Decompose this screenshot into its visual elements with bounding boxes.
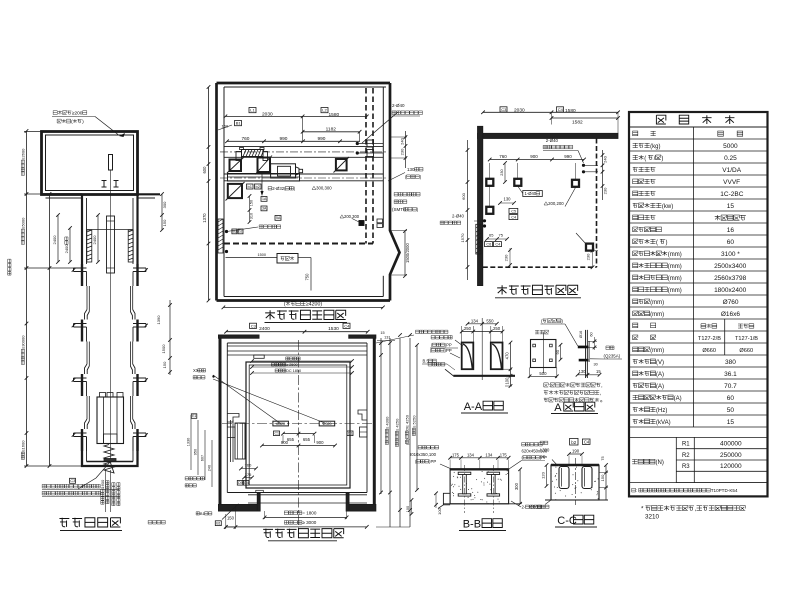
svg-text:550: 550: [486, 319, 494, 324]
svg-text:310: 310: [250, 213, 254, 219]
svg-text:1580: 1580: [329, 112, 340, 118]
svg-text:900: 900: [316, 440, 324, 445]
svg-text:230: 230: [504, 254, 509, 261]
svg-text:760: 760: [499, 154, 507, 159]
svg-text:Ø660: Ø660: [739, 348, 753, 354]
pit leader and notes: [78, 462, 110, 489]
svg-text:): ): [666, 240, 668, 246]
svg-text:230: 230: [400, 148, 405, 155]
svg-text:600: 600: [461, 192, 466, 199]
B-B top dims: [450, 457, 509, 459]
svg-text:15: 15: [727, 419, 735, 426]
svg-text:C4: C4: [511, 216, 516, 220]
svg-text:75: 75: [499, 233, 504, 238]
door width dim 1800: [265, 516, 347, 518]
right dims 240 230: [602, 150, 604, 200]
svg-text:≥1600: ≥1600: [21, 440, 26, 452]
svg-text:L1: L1: [250, 108, 255, 113]
svg-text:1182: 1182: [326, 127, 337, 133]
left rail bracket: [227, 414, 239, 423]
dim 150 bottom left: [226, 526, 236, 528]
pulley dims 655 655: [283, 433, 315, 435]
bottom left leader B1: [222, 504, 239, 520]
table gap band: [629, 436, 768, 438]
notch dim 1500 2000: [404, 231, 406, 276]
plan outer left wall: [215, 83, 218, 301]
A-detail steel plate label: [606, 346, 610, 350]
A-A right dims 470 100: [510, 343, 512, 387]
guide rail long rect: [107, 216, 115, 273]
svg-text:36.1: 36.1: [724, 371, 737, 378]
svg-text:C4: C4: [344, 323, 350, 328]
svg-text:I,300: I,300: [540, 448, 550, 453]
section-view left dim labels: [21, 148, 26, 175]
C-C stipple: [572, 484, 573, 485]
svg-text:1500/2000: 1500/2000: [405, 243, 410, 263]
svg-text:C4: C4: [495, 243, 500, 247]
svg-text:380: 380: [725, 359, 736, 366]
machine room box inner wall: [46, 135, 134, 191]
svg-text:(Q235A): (Q235A): [604, 354, 621, 359]
right top leader texts: [416, 330, 420, 333]
svg-text:(mm): (mm): [650, 348, 664, 354]
svg-text:230: 230: [603, 187, 608, 194]
svg-text:0.25: 0.25: [724, 155, 737, 162]
svg-text:VVVF: VVVF: [723, 179, 740, 186]
svg-text:2400: 2400: [259, 326, 270, 332]
hoist machine in machine room: [109, 155, 113, 171]
C-C channels: [559, 467, 569, 489]
shaft walls top solid segment: [81, 194, 83, 264]
B-B right dim 300: [519, 469, 521, 504]
A-A right beam rect: [491, 343, 503, 370]
B-B top left labels: [418, 446, 422, 449]
svg-text:3A: 3A: [262, 207, 267, 211]
table title: [656, 115, 665, 124]
svg-text:300: 300: [162, 201, 167, 208]
counterweight assembly left wall: [230, 420, 232, 462]
center crosshair dash-dot: [298, 340, 300, 530]
A-A extension lines: [461, 326, 463, 343]
svg-text:200,300: 200,300: [344, 214, 360, 219]
svg-text:R2: R2: [682, 453, 690, 459]
title 井道剖面图: [59, 518, 69, 527]
svg-text:230: 230: [586, 253, 591, 260]
rope hole square S4: [228, 184, 242, 198]
svg-text:≤30000: ≤30000: [21, 335, 26, 349]
svg-text:(kg): (kg): [650, 144, 660, 150]
dim 100 below right stack: [406, 506, 410, 512]
plan right wall with notch: [390, 83, 400, 301]
hole H5: [586, 244, 593, 251]
C-C top left labels: [540, 441, 544, 444]
plan dashed boundary: [365, 88, 367, 244]
C-C dim 190: [569, 453, 582, 455]
svg-text:DE 4250: DE 4250: [405, 414, 410, 430]
guide rail hatched bars: [87, 230, 92, 262]
svg-text:65: 65: [489, 233, 494, 238]
svg-text:240: 240: [603, 155, 608, 162]
svg-text:150: 150: [162, 219, 167, 226]
svg-text:(N): (N): [656, 460, 664, 466]
left outside note: [185, 477, 188, 480]
left outside dim columns shaft plan: [190, 415, 192, 470]
svg-text:(V): (V): [656, 360, 664, 366]
anchor dots and wall boxes: [356, 142, 359, 145]
svg-text:655: 655: [303, 437, 311, 442]
svg-text:)PP: )PP: [445, 343, 452, 348]
svg-text:990: 990: [279, 136, 287, 142]
svg-text:b2: b2: [571, 440, 577, 445]
dim 1182: [303, 131, 360, 133]
C-C bottom left leader: [545, 500, 551, 505]
A-detail dim 500: [530, 375, 557, 377]
svg-text:175: 175: [245, 472, 252, 477]
svg-text:607: 607: [201, 455, 205, 461]
svg-text:(mm): (mm): [668, 264, 682, 270]
hole H1: [486, 179, 493, 186]
svg-text:175: 175: [500, 452, 508, 457]
svg-text:(A): (A): [656, 384, 664, 390]
svg-text:3210: 3210: [645, 514, 660, 521]
buffer spring: [104, 445, 114, 474]
pit vertical dim texts: [105, 470, 107, 512]
svg-text:130: 130: [579, 369, 587, 374]
hole H4: [486, 207, 493, 214]
svg-text:A: A: [554, 402, 562, 414]
svg-text:B1: B1: [216, 522, 220, 526]
svg-text:≥ 3000: ≥ 3000: [302, 520, 316, 525]
svg-text:(mm): (mm): [650, 312, 664, 318]
left outside dim column: [208, 87, 210, 301]
title 机房平面布置图: [265, 310, 275, 319]
svg-text:Ø16: Ø16: [579, 331, 583, 338]
svg-text:2-Ø32(: 2-Ø32(: [272, 186, 286, 191]
A-detail plate: [531, 340, 556, 368]
right outside dim stack: [380, 338, 382, 494]
svg-text:D1: D1: [348, 432, 353, 436]
svg-text:C3: C3: [501, 107, 507, 112]
buffer base: [104, 459, 116, 462]
svg-text:2500x3400: 2500x3400: [714, 263, 747, 270]
svg-text:240: 240: [208, 465, 212, 471]
section-view secondary dim line: [49, 194, 51, 466]
svg-text:1370: 1370: [202, 213, 207, 223]
svg-text:C3: C3: [70, 478, 76, 483]
left wall cable slot: [218, 219, 223, 253]
ref boxes C5 C4: [509, 208, 518, 213]
leader to box top: [95, 117, 118, 135]
svg-text:131: 131: [384, 336, 390, 340]
svg-text:150: 150: [600, 474, 605, 481]
svg-text:(mm): (mm): [650, 300, 664, 306]
svg-text:≥ 2500: ≥ 2500: [286, 363, 298, 367]
svg-text:5A: 5A: [276, 216, 281, 220]
svg-text:120: 120: [541, 471, 546, 478]
svg-text:134: 134: [467, 452, 475, 457]
svg-text:b1: b1: [248, 184, 253, 189]
svg-text:≥5000: ≥5000: [21, 217, 26, 229]
svg-text:,: ,: [600, 391, 601, 397]
svg-text:Ø660: Ø660: [702, 348, 716, 354]
svg-text:D4: D4: [244, 481, 249, 485]
A-A left beam rect: [462, 343, 474, 370]
svg-text:15: 15: [380, 331, 384, 335]
svg-text:1530: 1530: [328, 326, 339, 332]
svg-text:1600: 1600: [100, 479, 105, 489]
svg-text:2400: 2400: [92, 235, 97, 245]
C-C centerline: [575, 458, 577, 505]
svg-text:T127-2/B: T127-2/B: [698, 336, 721, 342]
traction machine sheave block: [242, 150, 264, 157]
top dim line 2030 1580: [225, 115, 366, 117]
hole labels under machine: [268, 187, 272, 190]
svg-text:b2: b2: [239, 230, 243, 234]
shaft plan top dim line: [226, 331, 368, 333]
top label machine room slab: [53, 111, 57, 115]
svg-text:≥2600: ≥2600: [21, 148, 26, 160]
wall slot hatched: [476, 224, 481, 254]
A-detail dim 90: [560, 345, 562, 360]
svg-text:b2: b2: [256, 184, 261, 189]
pulley boxes under car: [273, 421, 289, 426]
A-A leader texts: [431, 335, 435, 339]
svg-text:2-Ø40: 2-Ø40: [392, 103, 405, 108]
svg-text:(Hz): (Hz): [656, 408, 667, 414]
svg-text:1A: 1A: [262, 197, 267, 201]
shaft plan back wall lines: [227, 342, 367, 344]
pit walls and floor: [82, 437, 138, 467]
svg-text:(mm): (mm): [668, 252, 682, 258]
svg-text:2560x3798: 2560x3798: [714, 275, 747, 282]
A-detail centerline: [542, 333, 544, 374]
B-B top right labels: [522, 443, 526, 446]
motor body: [271, 164, 296, 178]
svg-text:500: 500: [539, 371, 547, 376]
svg-text:2030: 2030: [262, 111, 273, 117]
svg-text:100: 100: [505, 377, 510, 385]
svg-text:300: 300: [514, 482, 519, 490]
svg-text:134: 134: [471, 319, 479, 324]
hole H5 leader and dim: [576, 233, 586, 244]
wall boxes bottom right: [377, 219, 383, 223]
svg-text:200,200: 200,200: [548, 201, 564, 206]
rope hole square S1: [230, 160, 242, 172]
svg-text:B3: B3: [232, 230, 236, 234]
svg-text:R1: R1: [682, 441, 690, 447]
svg-text:(mm): (mm): [668, 276, 682, 282]
rope hole square S2: [258, 158, 271, 173]
bottom dim width: [223, 306, 383, 308]
floor door sills, slabs and door panels: [74, 267, 87, 269]
label 1-040 hole: [523, 191, 543, 197]
black anchor square: [359, 221, 364, 226]
right outside dims 240 230: [405, 131, 407, 168]
svg-text:≥ 5250: ≥ 5250: [412, 415, 417, 428]
svg-text:1570: 1570: [460, 233, 465, 243]
svg-text:(SMTC: (SMTC: [392, 207, 407, 212]
svg-text::: :: [636, 488, 637, 493]
svg-text:Ø16x6: Ø16x6: [721, 311, 741, 318]
B-B stipple dots: [469, 474, 470, 475]
A-detail notes: [544, 383, 548, 387]
svg-text:C1: C1: [275, 432, 280, 436]
hole connector lines: [489, 163, 491, 179]
B-B I-beams: [458, 472, 471, 474]
svg-text:150: 150: [227, 515, 235, 520]
svg-text:950: 950: [194, 449, 198, 455]
svg-text:C5: C5: [511, 209, 516, 213]
A-detail holes: [533, 344, 536, 347]
svg-text:A-A: A-A: [464, 401, 483, 413]
svg-text:,: ,: [695, 506, 697, 513]
svg-text:,: ,: [601, 383, 602, 389]
svg-text:B1: B1: [236, 121, 242, 126]
svg-text:760: 760: [241, 136, 249, 142]
svg-text:): ): [661, 156, 663, 162]
B-B bottom line: [443, 503, 520, 505]
first floor level note: [148, 520, 152, 524]
hole H3: [572, 180, 579, 187]
svg-text:1330: 1330: [187, 438, 191, 446]
svg-text:1580: 1580: [565, 108, 576, 114]
svg-text:1582: 1582: [572, 120, 583, 126]
svg-text:R3: R3: [682, 464, 690, 470]
svg-text:(: (: [656, 240, 658, 246]
I beam marks: [102, 180, 107, 182]
svg-text:60: 60: [727, 395, 735, 402]
svg-text:150: 150: [222, 124, 229, 129]
svg-text:DC 1850: DC 1850: [286, 369, 301, 373]
title 机房平面留孔图: [497, 285, 507, 294]
car interior dim lines top: [252, 360, 352, 362]
label 200 200: [544, 202, 548, 205]
svg-text:1800x2400: 1800x2400: [714, 287, 747, 294]
svg-text:250: 250: [493, 326, 501, 331]
cable hole label: [259, 225, 263, 229]
svg-text:PP: PP: [540, 455, 546, 460]
A-detail label 16 holes: [535, 330, 539, 333]
machine room box outer wall: [42, 132, 138, 195]
svg-text:50: 50: [727, 407, 735, 414]
shaft plan top wall corner piers: [219, 335, 260, 338]
right side floor dims: [161, 194, 163, 230]
rope hole square S3: [336, 159, 347, 170]
car walls: [246, 362, 350, 488]
door jamb piers: [257, 493, 260, 512]
svg-text:T127-1/B: T127-1/B: [735, 336, 758, 342]
plan top wall: [217, 82, 391, 85]
svg-text:T10PTD-K54: T10PTD-K54: [711, 488, 738, 493]
svg-text:100: 100: [437, 507, 442, 514]
svg-text:75: 75: [600, 456, 605, 461]
pulley dims 900 900: [262, 445, 335, 447]
svg-text:990: 990: [317, 136, 325, 142]
svg-text:≥ 4250: ≥ 4250: [395, 418, 400, 431]
C-C right dims: [605, 465, 607, 500]
svg-text:15: 15: [727, 203, 735, 210]
svg-text:C6: C6: [486, 243, 491, 247]
shaft width dim 3000: [226, 526, 367, 528]
shaft plan top beam band: [227, 350, 367, 352]
svg-text:100: 100: [406, 506, 410, 512]
svg-text:= 1800: = 1800: [302, 511, 317, 516]
svg-text:(A): (A): [674, 396, 682, 402]
svg-text:(kw): (kw): [662, 204, 673, 210]
misc ref boxes: [261, 197, 267, 202]
svg-text:300,300: 300,300: [316, 186, 332, 191]
svg-text:C4: C4: [558, 107, 564, 112]
svg-text:L2: L2: [322, 108, 327, 113]
svg-text:(: (: [644, 156, 646, 162]
traction machine bed: [228, 174, 300, 182]
svg-text:600: 600: [202, 166, 207, 174]
svg-text:(mm): (mm): [668, 288, 682, 294]
svg-text:15: 15: [596, 369, 601, 374]
svg-text:30: 30: [594, 363, 598, 367]
hole plan top dims: [483, 111, 618, 113]
svg-text:175: 175: [452, 452, 460, 457]
control cabinet: [277, 254, 298, 264]
svg-text:250000: 250000: [720, 452, 742, 459]
machine room floor slab lines: [42, 193, 83, 195]
svg-text:60: 60: [727, 239, 735, 246]
counterweight dims: [241, 468, 256, 470]
C-C left dim 120: [546, 465, 548, 486]
hole plan inner dims 760 900 990: [490, 159, 584, 161]
B-B left step: [443, 493, 450, 505]
svg-text:2400: 2400: [52, 235, 57, 245]
right rail bracket: [358, 410, 367, 420]
svg-text:70.7: 70.7: [724, 383, 737, 390]
svg-text:5000: 5000: [723, 143, 738, 150]
left outside dims hole plan: [467, 140, 469, 280]
svg-text:230: 230: [500, 169, 504, 175]
machine leader arrow: [261, 172, 263, 194]
svg-text:≥200: ≥200: [72, 111, 83, 117]
car in section: [97, 397, 124, 444]
rope center line: [110, 170, 112, 459]
dim 760 990 990: [227, 140, 360, 142]
svg-text:≥ 4300: ≥ 4300: [385, 416, 390, 429]
beam center dash-dot lines: [220, 151, 386, 153]
section-view left dimension line: [26, 131, 28, 466]
A-A baseline slab: [453, 375, 515, 377]
table rows: [629, 138, 768, 140]
door sill band: [227, 492, 367, 494]
svg-text:E1: E1: [192, 414, 196, 418]
svg-text:D9: D9: [238, 481, 243, 485]
svg-text:(: (: [284, 302, 286, 308]
C-C concrete block: [551, 465, 599, 500]
svg-text:90: 90: [555, 349, 560, 354]
svg-text:900: 900: [281, 440, 289, 445]
svg-text:1500: 1500: [161, 344, 166, 354]
table note row: [632, 488, 636, 492]
svg-text:2-Ø40: 2-Ø40: [546, 138, 559, 143]
plan bottom wall: [217, 299, 391, 302]
A-A dim 250 250: [462, 331, 503, 333]
svg-text:16: 16: [727, 227, 735, 234]
A-detail top dims: [588, 340, 597, 342]
hole plan walls: [478, 133, 619, 138]
title 井道平面布置图: [263, 529, 273, 538]
A-A center line: [481, 318, 483, 380]
svg-text:V1/DA: V1/DA: [722, 167, 741, 174]
shaft plan left wall: [219, 335, 222, 509]
hole H2: [514, 179, 521, 186]
svg-text:2-: 2-: [522, 505, 526, 510]
